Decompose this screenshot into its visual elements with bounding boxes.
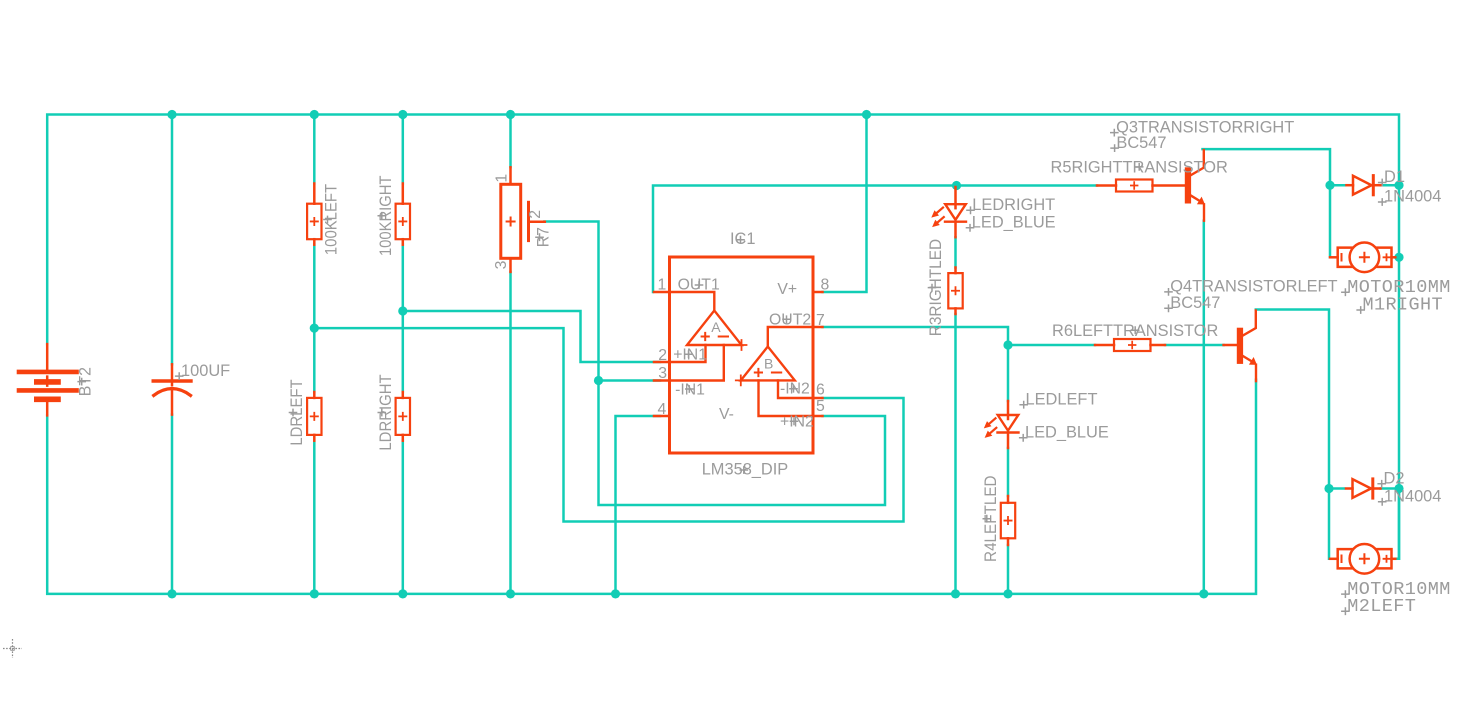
svg-text:D2: D2 <box>1384 470 1405 488</box>
op-amp U1B triangle <box>736 327 813 416</box>
junction V+ / R7 pin1 <box>506 110 515 119</box>
label M1RIGHT <box>1356 295 1443 316</box>
label MOTOR10MM top <box>1341 277 1451 298</box>
junction D2 cathode / right rail <box>1394 484 1403 493</box>
label LED_BLUE left <box>1019 424 1109 442</box>
svg-text:LED_BLUE: LED_BLUE <box>1025 424 1109 442</box>
svg-text:M1RIGHT: M1RIGHT <box>1363 295 1444 316</box>
svg-text:6: 6 <box>816 382 825 399</box>
junction D2 anode / M2 branch <box>1324 484 1333 493</box>
wire node wiper to IC1 pin3 <box>599 379 661 382</box>
label LDRRIGHT <box>377 374 395 450</box>
diode D1 1N4004 <box>1347 176 1382 195</box>
pin 7 stub <box>813 326 823 329</box>
wire IC1 pin7 OUT2 <box>823 327 1009 345</box>
pin 2 stub <box>654 361 670 364</box>
wire 100KLEFT top net V+ <box>313 115 316 184</box>
junction node wiper/pin3/pin5 <box>594 376 603 385</box>
label 1N4004 bottom <box>1378 488 1442 506</box>
svg-text:BC547: BC547 <box>1170 294 1220 312</box>
junction GND / R3 <box>951 589 960 598</box>
wire R7 pin1 net V+ <box>509 115 512 168</box>
label pin +IN1 <box>673 347 707 364</box>
label MOTOR10MM bottom <box>1341 579 1451 600</box>
LED LEDLEFT LED_BLUE <box>984 401 1019 448</box>
LED LEDRIGHT LED_BLUE <box>931 187 966 237</box>
label BC547 bottom <box>1164 294 1220 312</box>
label Q4TRANSISTORLEFT <box>1164 278 1337 296</box>
svg-text:R6LEFTTRANSISTOR: R6LEFTTRANSISTOR <box>1052 322 1219 340</box>
junction GND / C1 <box>167 589 176 598</box>
wire R4 bottom to net GND <box>1007 545 1010 594</box>
svg-text:R5RIGHTTRANSISTOR: R5RIGHTTRANSISTOR <box>1051 159 1228 177</box>
LDR LDRLEFT <box>307 392 321 441</box>
LDR LDRRIGHT <box>396 392 410 441</box>
svg-text:LEDRIGHT: LEDRIGHT <box>972 196 1055 214</box>
label pin OUT1 <box>678 277 720 294</box>
resistor R4LEFTLED <box>1001 496 1015 545</box>
svg-text:R3RIGHTLED: R3RIGHTLED <box>927 239 945 336</box>
label pin V+ <box>777 281 797 298</box>
wire node OUT2A to R6 <box>1008 344 1095 347</box>
label M2LEFT <box>1341 596 1416 617</box>
svg-text:8: 8 <box>821 277 830 294</box>
wire Q3 emitter to net GND <box>1203 221 1206 594</box>
wire node LEFTDIV between 100KLEFT and LDRLEFT <box>313 245 316 393</box>
pin name OUT2 cross <box>782 315 791 323</box>
svg-text:+IN1: +IN1 <box>673 347 707 364</box>
label 100KLEFT <box>323 184 341 255</box>
pin number IC1 pin 7 <box>816 312 825 329</box>
svg-text:D1: D1 <box>1384 168 1405 186</box>
pin number IC1 pin 6 <box>816 382 825 399</box>
junction M1 right / right rail <box>1394 253 1403 262</box>
svg-text:100UF: 100UF <box>181 362 230 380</box>
label 1N4004 top <box>1378 188 1442 206</box>
junction D1 anode / M1 branch <box>1325 181 1334 190</box>
capacitor C1 100UF <box>153 364 191 414</box>
junction GND / LDRRIGHT <box>398 589 407 598</box>
junction V+ / C1 <box>167 110 176 119</box>
wire LDRLEFT bottom net GND <box>313 441 316 594</box>
resistor R5RIGHTTRANSISTOR <box>1097 180 1185 192</box>
wire node OUT1A to R5 <box>957 184 1098 187</box>
svg-text:R7: R7 <box>535 227 553 247</box>
junction V+ / 100KRIGHT <box>398 110 407 119</box>
svg-text:Q4TRANSISTORLEFT: Q4TRANSISTORLEFT <box>1170 278 1337 296</box>
wire Q3 collector to D1/M1 branch <box>1203 149 1331 257</box>
label R7 pin1 <box>494 174 511 183</box>
wire R7 pin3 net GND <box>509 272 512 594</box>
junction GND / R7 pin3 <box>506 589 515 598</box>
pin number IC1 pin 8 <box>821 277 830 294</box>
potentiometer R7 <box>501 167 545 272</box>
label pin OUT2 <box>769 312 811 329</box>
wire D2 anode lead <box>1329 487 1344 490</box>
svg-text:2: 2 <box>527 210 544 219</box>
junction GND / R4 <box>1003 589 1012 598</box>
svg-text:B: B <box>764 355 773 371</box>
label 100KRIGHT <box>377 176 395 256</box>
pin number IC1 pin 4 <box>658 401 667 418</box>
pin name +IN1 cross <box>684 350 693 358</box>
wire LEDRIGHT cathode to R3 <box>954 237 957 267</box>
svg-text:BC547: BC547 <box>1116 134 1166 152</box>
svg-text:100KRIGHT: 100KRIGHT <box>377 176 395 256</box>
wire node LEFTDIV to IC1 pin6 <box>314 328 903 521</box>
junction node OUT2A at LEDLEFT <box>1003 340 1012 349</box>
label LEDLEFT <box>1019 390 1097 408</box>
svg-text:V-: V- <box>719 406 734 423</box>
svg-text:1: 1 <box>658 277 667 294</box>
label IC1 anchor cross <box>736 236 745 244</box>
label R7 <box>535 227 553 247</box>
wire M1 right terminal to right rail <box>1395 256 1399 259</box>
junction GND / IC1 pin4 <box>611 589 620 598</box>
label R5RIGHTTRANSISTOR <box>1051 159 1228 177</box>
svg-text:3: 3 <box>658 365 667 382</box>
resistor R2 100KRIGHT <box>396 184 410 245</box>
svg-text:1N4004: 1N4004 <box>1384 188 1441 206</box>
label R7 pin3 <box>493 260 510 269</box>
motor M2LEFT MOTOR10MM <box>1330 544 1395 574</box>
wire LEDLEFT cathode to R4 <box>1007 448 1010 496</box>
wire LDRRIGHT bottom net GND <box>402 441 405 594</box>
label pin V- <box>719 406 734 423</box>
svg-text:BT2: BT2 <box>77 367 95 396</box>
pin 5 stub <box>813 415 823 418</box>
pin number IC1 pin 5 <box>816 398 825 415</box>
wire D2 cathode to right rail <box>1381 487 1400 490</box>
label R6LEFTTRANSISTOR <box>1052 322 1219 340</box>
label pin -IN1 <box>675 381 705 398</box>
resistor R1 100KLEFT <box>307 184 321 245</box>
pin number IC1 pin 1 <box>658 277 667 294</box>
svg-text:A: A <box>711 319 721 335</box>
wire net V+ : left rail top + top rail + right rail <box>47 115 1399 559</box>
pin 8 stub <box>813 291 823 294</box>
svg-text:V+: V+ <box>777 281 797 298</box>
svg-text:LDRLEFT: LDRLEFT <box>288 379 306 445</box>
svg-text:1: 1 <box>494 174 511 183</box>
junction GND / LDRLEFT <box>310 589 319 598</box>
junction node LEFTDIV <box>310 324 319 333</box>
label LDRLEFT <box>288 379 306 445</box>
label op-amp B <box>764 355 773 371</box>
pin name OUT1 cross <box>695 281 704 289</box>
label R3RIGHTLED <box>927 239 945 336</box>
wire R7 wiper to IC1 pin5 <box>544 222 885 506</box>
wire node OUT2A down to LEDLEFT <box>1007 345 1010 401</box>
resistor R6LEFTTRANSISTOR <box>1095 339 1165 351</box>
origin crosshair marker <box>3 639 22 658</box>
label D1 <box>1378 168 1405 186</box>
pin 6 stub <box>813 397 823 400</box>
wire C1 top lead net V+ <box>171 115 174 365</box>
junction V+ / 100KLEFT <box>310 110 319 119</box>
pin 3 stub <box>654 379 670 382</box>
label IC1 <box>730 230 756 248</box>
label op-amp A <box>711 319 721 335</box>
svg-text:7: 7 <box>816 312 825 329</box>
junction GND / Q3 emitter <box>1199 589 1208 598</box>
wire net GND to IC1 pin4 <box>616 416 661 594</box>
label R7 pin2 <box>527 210 544 219</box>
op-amp U1A triangle <box>670 292 747 381</box>
wire M2 right terminal to right rail <box>1396 489 1400 559</box>
junction node OUT1A at LEDRIGHT <box>952 181 961 190</box>
label R4LEFTLED <box>982 475 1000 562</box>
wire D1 cathode to right rail <box>1381 184 1399 187</box>
pin number IC1 pin 3 <box>658 365 667 382</box>
wire net GND : left rail bottom + bottom rail + Q4 emitter riser <box>47 380 1256 594</box>
svg-text:M2LEFT: M2LEFT <box>1347 596 1416 617</box>
pin number IC1 pin 2 <box>658 347 667 364</box>
op-amp IC1 LM358_DIP body <box>670 257 814 453</box>
motor M1RIGHT MOTOR10MM <box>1330 242 1395 272</box>
svg-text:R4LEFTLED: R4LEFTLED <box>982 475 1000 562</box>
svg-text:LED_BLUE: LED_BLUE <box>972 214 1056 232</box>
label 100UF <box>175 362 230 380</box>
svg-text:-IN1: -IN1 <box>675 381 705 398</box>
diode D2 1N4004 <box>1346 479 1381 498</box>
battery BT2 <box>19 344 77 415</box>
transistor Q4TRANSISTORLEFT BC547 <box>1237 311 1257 382</box>
svg-text:LDRRIGHT: LDRRIGHT <box>377 374 395 450</box>
wire node RIGHTDIV to IC1 pin2 <box>403 311 660 362</box>
wire D1 anode lead <box>1330 184 1345 187</box>
wire 100KRIGHT top net V+ <box>402 115 405 184</box>
wire C1 bottom lead net GND <box>171 415 174 594</box>
label BT2 <box>77 367 95 396</box>
svg-text:1N4004: 1N4004 <box>1384 488 1441 506</box>
wire IC1 pin8 to net V+ <box>823 115 867 293</box>
svg-text:4: 4 <box>658 401 667 418</box>
pin name +IN2 cross <box>790 417 799 425</box>
pin 4 stub <box>654 415 670 418</box>
transistor Q3TRANSISTORRIGHT BC547 <box>1185 150 1205 221</box>
label LM358_DIP <box>702 461 789 479</box>
label LEDRIGHT <box>966 196 1055 214</box>
resistor R3RIGHTLED <box>948 268 962 315</box>
wire node RIGHTDIV between 100KRIGHT and LDRRIGHT <box>402 245 405 393</box>
svg-text:2: 2 <box>658 347 667 364</box>
wire R6 to Q4 base <box>1165 344 1224 347</box>
label LM358_DIP anchor cross <box>740 466 749 474</box>
wire Q4 base lead <box>1224 344 1237 347</box>
junction D1 cathode / right rail <box>1394 181 1403 190</box>
label LED_BLUE right <box>966 214 1056 232</box>
label pin +IN2 <box>780 413 814 430</box>
pin name -IN1 cross <box>685 385 694 393</box>
label pin -IN2 <box>780 381 810 398</box>
label Q3TRANSISTORRIGHT <box>1110 118 1294 136</box>
junction V+ / IC1 pin8 <box>862 110 871 119</box>
pin name -IN2 cross <box>789 385 798 393</box>
label D2 <box>1377 470 1404 488</box>
pin 1 stub <box>654 291 670 294</box>
wire Q4 collector to D2/M2 branch <box>1256 310 1329 559</box>
wire R3 bottom to net GND <box>954 314 957 594</box>
svg-text:100KLEFT: 100KLEFT <box>323 184 341 255</box>
svg-text:5: 5 <box>816 398 825 415</box>
label BC547 top <box>1110 134 1166 152</box>
wire IC1 pin1 OUT1 up and right <box>653 186 957 293</box>
svg-text:3: 3 <box>493 260 510 269</box>
junction node RIGHTDIV <box>398 306 407 315</box>
svg-text:LEDLEFT: LEDLEFT <box>1026 390 1098 408</box>
